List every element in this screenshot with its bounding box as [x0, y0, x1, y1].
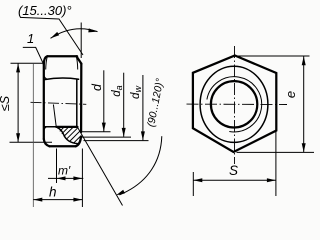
h left extension line (hanging) [32, 63, 34, 207]
extension line for d [82, 131, 111, 133]
extension line top for S-limit [11, 62, 45, 64]
vertical extension line at right face [80, 23, 82, 59]
svg-text:h: h [49, 185, 57, 200]
arrowhead right of chamfer angle arc [88, 28, 97, 32]
slant line (washer recess boundary) [53, 105, 56, 127]
bottom-right corner arc [76, 137, 81, 147]
S dimension line [193, 179, 276, 181]
hatch stroke 6 [70, 131, 81, 142]
extension line bottom for S-limit [10, 141, 53, 143]
nut bottom corner line [50, 145, 76, 147]
hexagon outline [193, 56, 276, 153]
S right extension line [275, 130, 277, 196]
hole circle [211, 81, 257, 127]
S left extension line [192, 172, 194, 196]
chamfer cusp arc at left face lower [44, 127, 48, 131]
inner vertical edge near right face [76, 79, 78, 126]
e dimension line [303, 56, 305, 152]
svg-text:≤S: ≤S [0, 95, 12, 111]
extension line for dw [84, 140, 149, 142]
chamfer curve on upper-right face [76, 57, 77, 70]
nut top corner line [47, 55, 77, 57]
extension line for da [82, 136, 131, 138]
svg-text:da: da [111, 85, 124, 96]
hole line / internal hex edge (lower) [44, 126, 56, 128]
e arrowhead up [302, 56, 306, 65]
arrowhead up for S-limit [16, 63, 20, 72]
svg-text:(90...120)°: (90...120)° [145, 77, 166, 128]
bottom-left corner arc [44, 139, 50, 146]
S right arrowhead [267, 178, 276, 182]
chamfer angle arc [51, 29, 98, 39]
m' left arrowhead [57, 176, 66, 180]
centerline (nut axis) [31, 102, 87, 104]
leader for label 1 [23, 47, 43, 63]
nut top-right chamfer arc [76, 56, 81, 64]
svg-text:m′: m′ [58, 164, 71, 178]
dimension line for S-limit [17, 63, 19, 142]
dimension line d [103, 70, 105, 131]
chamfer cusp arc at left face upper [44, 75, 48, 79]
thread arc (3/4 circle) [207, 77, 262, 132]
m'/h right extension line [81, 149, 83, 208]
bearing cone edge diagonal [77, 127, 122, 206]
hatch stroke 7 [74, 136, 81, 143]
arrowhead d [102, 123, 106, 132]
nut left face [43, 64, 45, 140]
svg-text:dw: dw [130, 86, 143, 99]
m' left extension line [56, 149, 58, 184]
hatch stroke 5 [66, 128, 77, 139]
S left arrowhead [193, 178, 202, 182]
chamfer curve on upper-left face [46, 57, 48, 70]
svg-text:(15...30)°: (15...30)° [18, 3, 72, 18]
h dimension line [33, 199, 82, 201]
m' right arrowhead [73, 176, 82, 180]
m' dimension line [48, 177, 83, 179]
arrowhead down for S-limit [16, 133, 20, 142]
arrowhead dw [141, 131, 145, 140]
hatch stroke 4 [64, 127, 74, 137]
svg-text:S: S [229, 163, 238, 178]
leader underline and slant [20, 17, 83, 55]
svg-text:d: d [90, 83, 104, 91]
dimension line dw [142, 75, 144, 140]
nut right face [80, 64, 82, 132]
svg-text:1: 1 [27, 31, 34, 46]
horizontal centerline [187, 103, 288, 105]
e arrowhead down [302, 143, 306, 152]
nut internal hex edge (upper) [44, 78, 78, 80]
hatch stroke 1 [58, 127, 60, 129]
svg-text:e: e [283, 91, 298, 98]
vertical centerline [234, 46, 236, 164]
angle arc for 90...120 [119, 136, 161, 195]
h right arrowhead [73, 198, 82, 202]
hatch stroke 2 [60, 127, 64, 131]
chamfer circle [200, 66, 268, 142]
nut top-left chamfer arc [44, 56, 48, 64]
h left arrowhead [33, 198, 42, 202]
arrowhead left of chamfer angle arc [51, 32, 60, 38]
e top extension line [237, 55, 310, 57]
dimension line da [123, 73, 125, 137]
arrowhead da [122, 128, 126, 137]
arrowhead of 90...120 arc [116, 190, 125, 196]
hatch stroke 3 [62, 127, 69, 134]
e bottom extension line [237, 151, 315, 153]
freehand local-section curve [56, 127, 77, 144]
